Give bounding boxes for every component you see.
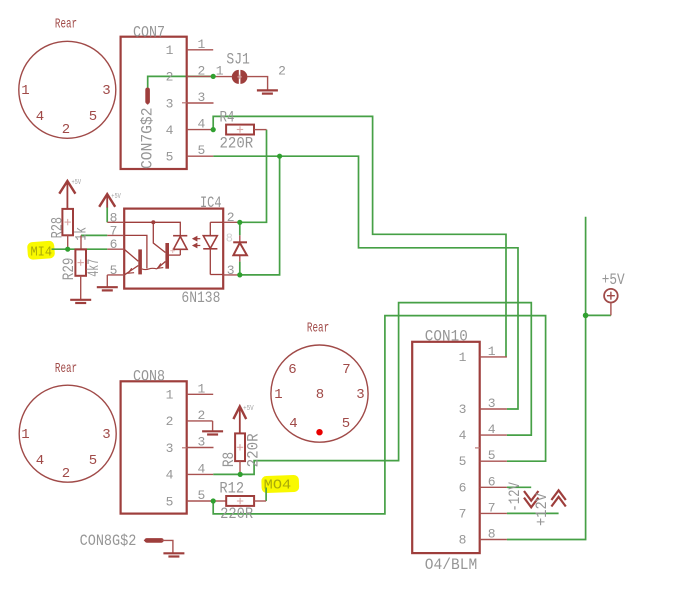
svg-text:1: 1	[459, 350, 467, 365]
IC4 pin 2 stub	[223, 221, 240, 223]
svg-text:5: 5	[166, 150, 174, 165]
svg-text:4: 4	[36, 453, 44, 469]
supply +5V arrow above R28	[59, 181, 75, 209]
svg-text:1: 1	[198, 381, 206, 396]
svg-text:5: 5	[89, 453, 97, 469]
IC4 pin 8 stub	[107, 221, 124, 223]
wire CON7.2 to SJ1 net	[148, 76, 214, 88]
DIN bottom-left pin digits	[21, 427, 110, 482]
IC4 pin 3 stub	[223, 274, 240, 276]
IC4 internal: transistor Q1 (output)	[124, 249, 142, 275]
CON7 pin 1 stub	[187, 49, 214, 51]
junction node CON7.4/R4	[211, 127, 216, 132]
svg-text:4: 4	[166, 468, 174, 483]
CON8 center tick	[182, 447, 187, 449]
junction node MI4/R28/R29	[65, 247, 70, 252]
wire CON7.5 net to IC4 pin3 and CON10 pin3	[213, 156, 518, 409]
IC4 internal: transistor Q2 (input)	[142, 222, 169, 269]
solder jumper SJ1	[232, 70, 248, 84]
svg-text:MO4: MO4	[264, 478, 292, 494]
CON7 pin 2 stub	[187, 75, 214, 77]
svg-text:220R: 220R	[244, 433, 262, 467]
svg-text:SJ1: SJ1	[226, 51, 250, 69]
svg-text:8: 8	[488, 527, 496, 542]
junction node CON8.5/R12	[211, 498, 216, 503]
svg-text:Rear: Rear	[55, 16, 77, 32]
svg-text:R4: R4	[220, 108, 235, 126]
CON10 center tick	[475, 447, 480, 449]
connector CON8 box	[121, 381, 187, 513]
svg-text:CON8: CON8	[133, 368, 165, 386]
svg-text:8: 8	[226, 232, 233, 246]
svg-text:R12: R12	[219, 480, 244, 498]
IC4 pin 7 stub	[107, 234, 124, 236]
svg-text:6N138: 6N138	[181, 289, 220, 307]
IC4 internal: pin7 line	[124, 235, 147, 268]
svg-text:220R: 220R	[220, 505, 253, 523]
svg-text:+12V: +12V	[533, 493, 551, 526]
IC4 internal: photodiode	[169, 236, 187, 255]
svg-text:1: 1	[198, 37, 206, 52]
svg-text:1: 1	[21, 83, 29, 99]
svg-text:Rear: Rear	[55, 361, 77, 377]
highlight for net label MO4	[261, 475, 299, 493]
svg-text:5: 5	[89, 109, 97, 125]
CON7 internal pin numbers	[166, 43, 174, 164]
junction node IC4 pin2	[237, 220, 242, 225]
ground at IC4 pin5	[97, 275, 118, 291]
wire CON7.4 / R4-left net to CON10 pin1	[213, 116, 506, 357]
svg-text:6: 6	[459, 480, 467, 495]
wire CON10 pin6 to -12V	[507, 486, 531, 488]
svg-text:-12V: -12V	[506, 482, 524, 512]
junction node +5V rail	[583, 313, 589, 319]
wire net MO4 stub from R12 right	[265, 488, 267, 502]
svg-text:4: 4	[488, 422, 496, 437]
svg-text:4: 4	[198, 117, 206, 132]
svg-text:6: 6	[488, 474, 496, 489]
svg-text:1: 1	[166, 388, 174, 403]
svg-text:5: 5	[488, 448, 496, 463]
IC4 internal: light emission arrows	[193, 237, 200, 248]
CON10 pin 1 stub	[480, 356, 507, 358]
CON10 internal pin numbers	[459, 350, 467, 548]
svg-text:4: 4	[36, 109, 44, 125]
CON8 internal pin numbers	[166, 388, 174, 510]
resistor R8	[235, 433, 245, 474]
svg-text:IC4: IC4	[200, 194, 222, 212]
wire net MI4 to IC4 pin6	[52, 248, 108, 250]
svg-text:3: 3	[227, 263, 235, 278]
CON7 external pin numbers	[198, 37, 206, 158]
svg-text:4: 4	[198, 461, 206, 476]
svg-text:2: 2	[278, 64, 286, 79]
ground at SJ1	[257, 90, 278, 93]
svg-text:3: 3	[102, 427, 110, 443]
svg-text:2: 2	[166, 70, 174, 85]
CON10 pin 7 stub	[480, 512, 507, 514]
CON10 pin 4 stub	[480, 434, 507, 436]
supply symbol +5V circle	[604, 289, 618, 315]
CON10 pin 3 stub	[480, 408, 507, 410]
svg-text:MI4: MI4	[31, 245, 53, 261]
wire CON8.5 / R12 net to CON10 pin5	[213, 316, 545, 514]
svg-text:3: 3	[198, 90, 206, 105]
ground below R29	[70, 300, 91, 303]
DIN-8 pin digits	[274, 362, 364, 432]
junction node CON7.2	[211, 74, 216, 79]
resistor R12	[213, 496, 266, 506]
svg-text:+5V: +5V	[243, 405, 254, 413]
svg-text:5: 5	[459, 454, 467, 469]
connector CON7 box	[121, 37, 187, 169]
opto-coupler IC4 box	[124, 209, 223, 289]
IC4 internal: pin8 rail	[124, 222, 180, 235]
CON7 pin 4 stub	[187, 129, 214, 131]
SJ1 pin 2 lead	[247, 77, 268, 91]
supply -12V arrow (CON10 pin6)	[524, 491, 538, 507]
DIN connector circle (top, Rear)	[19, 41, 116, 138]
svg-text:2: 2	[198, 408, 206, 423]
svg-text:R29: R29	[60, 258, 78, 281]
svg-text:O4/BLM: O4/BLM	[425, 556, 478, 574]
svg-text:1: 1	[166, 43, 174, 58]
svg-text:2: 2	[198, 63, 206, 78]
CON10 pin 5 stub	[480, 460, 507, 462]
svg-text:3: 3	[459, 402, 467, 417]
svg-text:1: 1	[274, 387, 282, 403]
ground at CON8 pin2	[202, 421, 223, 435]
IC4 internal: LED	[203, 222, 223, 274]
svg-text:6: 6	[288, 362, 296, 378]
svg-text:3: 3	[166, 441, 174, 456]
SJ1 pin 1 lead	[213, 76, 232, 78]
CON7 center tick	[182, 102, 187, 104]
svg-text:+5V: +5V	[72, 179, 82, 187]
CON7 pin 3 stub	[187, 102, 214, 104]
wire R29-top to IC4 pin7	[81, 234, 107, 236]
wire CON10 pin8 to +5V node	[507, 217, 611, 540]
svg-text:2: 2	[166, 414, 174, 429]
wire R4-right net to IC4 pin2	[240, 130, 267, 275]
CON7 shield pin CON7G$2 bar	[145, 90, 150, 105]
svg-text:8: 8	[316, 387, 324, 403]
wire CON8.4 / R8 net to CON10 pin4	[213, 303, 531, 475]
resistor R29	[75, 235, 86, 299]
svg-text:CON7G$2: CON7G$2	[138, 108, 156, 170]
svg-text:2: 2	[62, 122, 70, 138]
connector CON10 box	[412, 342, 480, 553]
DIN top pin digits	[21, 83, 110, 138]
svg-text:CON8G$2: CON8G$2	[80, 532, 137, 550]
svg-text:5: 5	[198, 143, 206, 158]
CON8 pin 2 stub	[187, 420, 213, 422]
DIN connector circle (bottom left, Rear)	[19, 385, 116, 482]
ground at CON8G$2	[163, 553, 184, 556]
CON7 pin 5 stub	[187, 155, 214, 157]
shield pin CON8G$2	[144, 540, 173, 553]
svg-text:2: 2	[227, 210, 235, 225]
svg-text:7: 7	[342, 362, 350, 378]
red index dot (DIN-8)	[316, 429, 322, 435]
svg-text:Rear: Rear	[307, 321, 329, 337]
CON10 pin 6 stub	[480, 486, 507, 488]
CON8 pin 3 stub	[187, 447, 214, 449]
svg-text:7: 7	[488, 500, 496, 515]
supply +5V arrow above IC4 pin8	[99, 194, 115, 207]
IC4 pin 5 stub	[107, 274, 124, 276]
DIN-8 connector circle (middle, Rear)	[271, 345, 368, 442]
junction node CON8.4/R8	[238, 472, 243, 477]
CON8 pin 4 stub	[187, 473, 214, 475]
CON10 external pin numbers	[488, 344, 496, 542]
svg-text:3: 3	[198, 435, 206, 450]
svg-text:4: 4	[459, 428, 467, 443]
svg-text:1: 1	[488, 344, 496, 359]
svg-text:3: 3	[102, 83, 110, 99]
resistor R28	[62, 209, 73, 249]
supply +5V arrow above R8	[233, 406, 246, 433]
IC4 pin numbers	[110, 210, 235, 278]
svg-text:3: 3	[488, 396, 496, 411]
svg-text:3: 3	[356, 387, 364, 403]
resistor R4	[226, 125, 266, 135]
svg-text:5: 5	[166, 494, 174, 509]
svg-text:5: 5	[110, 263, 118, 278]
supply +12V arrow (CON10 pin7)	[551, 490, 565, 506]
svg-text:7: 7	[459, 506, 467, 521]
CON8 pin 5 stub	[187, 500, 214, 502]
svg-text:7: 7	[110, 223, 118, 238]
CON8 pin 1 stub	[187, 393, 214, 395]
svg-text:5: 5	[198, 488, 206, 503]
svg-text:CON7: CON7	[133, 23, 165, 41]
highlight for net label MI4	[27, 241, 55, 260]
svg-text:220R: 220R	[220, 135, 254, 153]
junction node CON7.5 branch	[277, 154, 282, 159]
wire CON10 pin7 to +12V	[507, 512, 559, 514]
svg-text:CON10: CON10	[425, 328, 468, 346]
svg-text:+5V: +5V	[602, 271, 625, 289]
svg-text:2: 2	[62, 466, 70, 482]
IC4 internal junction dot	[151, 220, 155, 224]
svg-text:R8: R8	[220, 452, 238, 467]
diode D8 (across IC4 pins 2-3)	[233, 235, 247, 261]
CON8 external pin numbers	[198, 381, 206, 503]
svg-text:4: 4	[166, 123, 174, 138]
svg-text:3: 3	[166, 96, 174, 111]
wire +5V arrow to IC4 pin8	[106, 207, 108, 222]
svg-text:4k7: 4k7	[85, 259, 103, 277]
svg-text:6: 6	[110, 237, 118, 252]
IC4 internal: faint plus mark	[170, 248, 175, 253]
svg-text:+5V: +5V	[111, 193, 121, 201]
svg-text:4: 4	[289, 416, 297, 432]
IC4 pin 6 stub	[107, 248, 124, 250]
junction node IC4 pin3	[237, 272, 242, 277]
CON10 pin 8 stub	[480, 539, 507, 541]
svg-text:1: 1	[216, 64, 224, 79]
svg-text:1: 1	[21, 427, 29, 443]
svg-text:8: 8	[459, 533, 467, 548]
svg-text:R28: R28	[49, 217, 67, 239]
svg-text:5: 5	[342, 416, 350, 432]
